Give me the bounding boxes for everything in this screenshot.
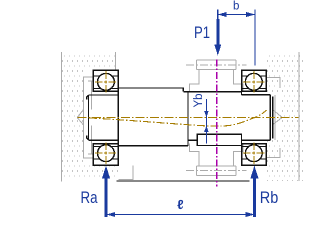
- Yb upper arrowhead: [204, 111, 209, 117]
- dimension b line: [218, 14, 255, 16]
- shaft left journal: [89, 95, 119, 140]
- reaction Ra arrow shaft: [105, 177, 108, 217]
- force P1 arrowhead: [214, 45, 221, 56]
- bearing D centerlines: [243, 142, 265, 163]
- dimension b right extension line: [254, 10, 256, 66]
- housing base edge: [116, 180, 249, 182]
- shaft middle section top: [118, 88, 183, 92]
- pulley rim top: [197, 60, 237, 70]
- bearing A centerlines: [95, 71, 117, 92]
- shaft right end face: [270, 95, 273, 140]
- load application line (magenta): [216, 60, 218, 187]
- dimension b left arrow: [218, 12, 227, 17]
- deflection Yb dimension line: [205, 99, 207, 144]
- svg-text:Rb: Rb: [260, 189, 279, 207]
- pulley rim bottom: [197, 166, 237, 176]
- right housing bore outline: [266, 77, 280, 157]
- pulley web and hub bottom: [190, 144, 243, 166]
- svg-text:Ra: Ra: [81, 189, 99, 207]
- bearing B outer box (bottom left): [93, 144, 118, 166]
- force P1 arrow shaft: [217, 15, 219, 21]
- right housing outer edge: [298, 52, 300, 181]
- shaft middle section bottom: [118, 145, 188, 147]
- bearing D outer box (bottom right): [242, 144, 267, 166]
- shaft right journal: [242, 95, 271, 140]
- pulley belt pitch line top: [186, 64, 247, 66]
- reaction Rb arrowhead: [250, 166, 258, 179]
- left housing lower step: [119, 166, 134, 180]
- shaft shoulder step left: [117, 88, 119, 146]
- bearing B centerlines: [95, 142, 117, 163]
- shaft sleeve seam: [187, 92, 189, 146]
- svg-text:Yb: Yb: [193, 93, 205, 107]
- reaction Rb arrow shaft: [253, 177, 256, 217]
- right lathe center cone: [273, 110, 282, 125]
- bearing D ball: [245, 145, 262, 162]
- shaft pulley seat bottom relief: [188, 139, 197, 141]
- left housing outer edge: [60, 52, 62, 182]
- svg-text:b: b: [233, 1, 239, 13]
- right housing section stipple: [267, 55, 305, 181]
- bearing C centerlines: [243, 71, 265, 92]
- bearing C outer box (top right): [242, 70, 267, 91]
- pulley web and hub top: [190, 69, 243, 91]
- pulley belt pitch line bottom: [186, 169, 247, 171]
- bearing B ball: [98, 145, 115, 162]
- bearing A outer box (top left): [93, 70, 118, 91]
- dimension l line: [107, 214, 255, 216]
- shaft centerline axis: [78, 117, 299, 119]
- dimension b left tick: [217, 10, 219, 21]
- bearing C ball: [245, 73, 262, 90]
- reaction Ra arrowhead: [102, 166, 110, 179]
- bearing A ball: [98, 73, 115, 90]
- dimension b right arrow: [246, 12, 255, 17]
- left housing bore outline: [84, 77, 94, 158]
- dimension l right arrow: [246, 212, 255, 217]
- left lathe center cone: [77, 110, 83, 125]
- shaft deflection curve: [89, 110, 267, 126]
- svg-text:P1: P1: [194, 24, 210, 42]
- dimension l left arrow: [107, 212, 116, 217]
- shaft pulley seat top: [183, 92, 241, 95]
- Yb lower arrowhead: [204, 126, 209, 132]
- shaft left end face: [87, 95, 89, 140]
- left housing right face above bearing: [115, 52, 117, 70]
- svg-text:ℓ: ℓ: [177, 197, 183, 212]
- left housing section stipple: [62, 54, 119, 180]
- key in keyway: [197, 134, 241, 145]
